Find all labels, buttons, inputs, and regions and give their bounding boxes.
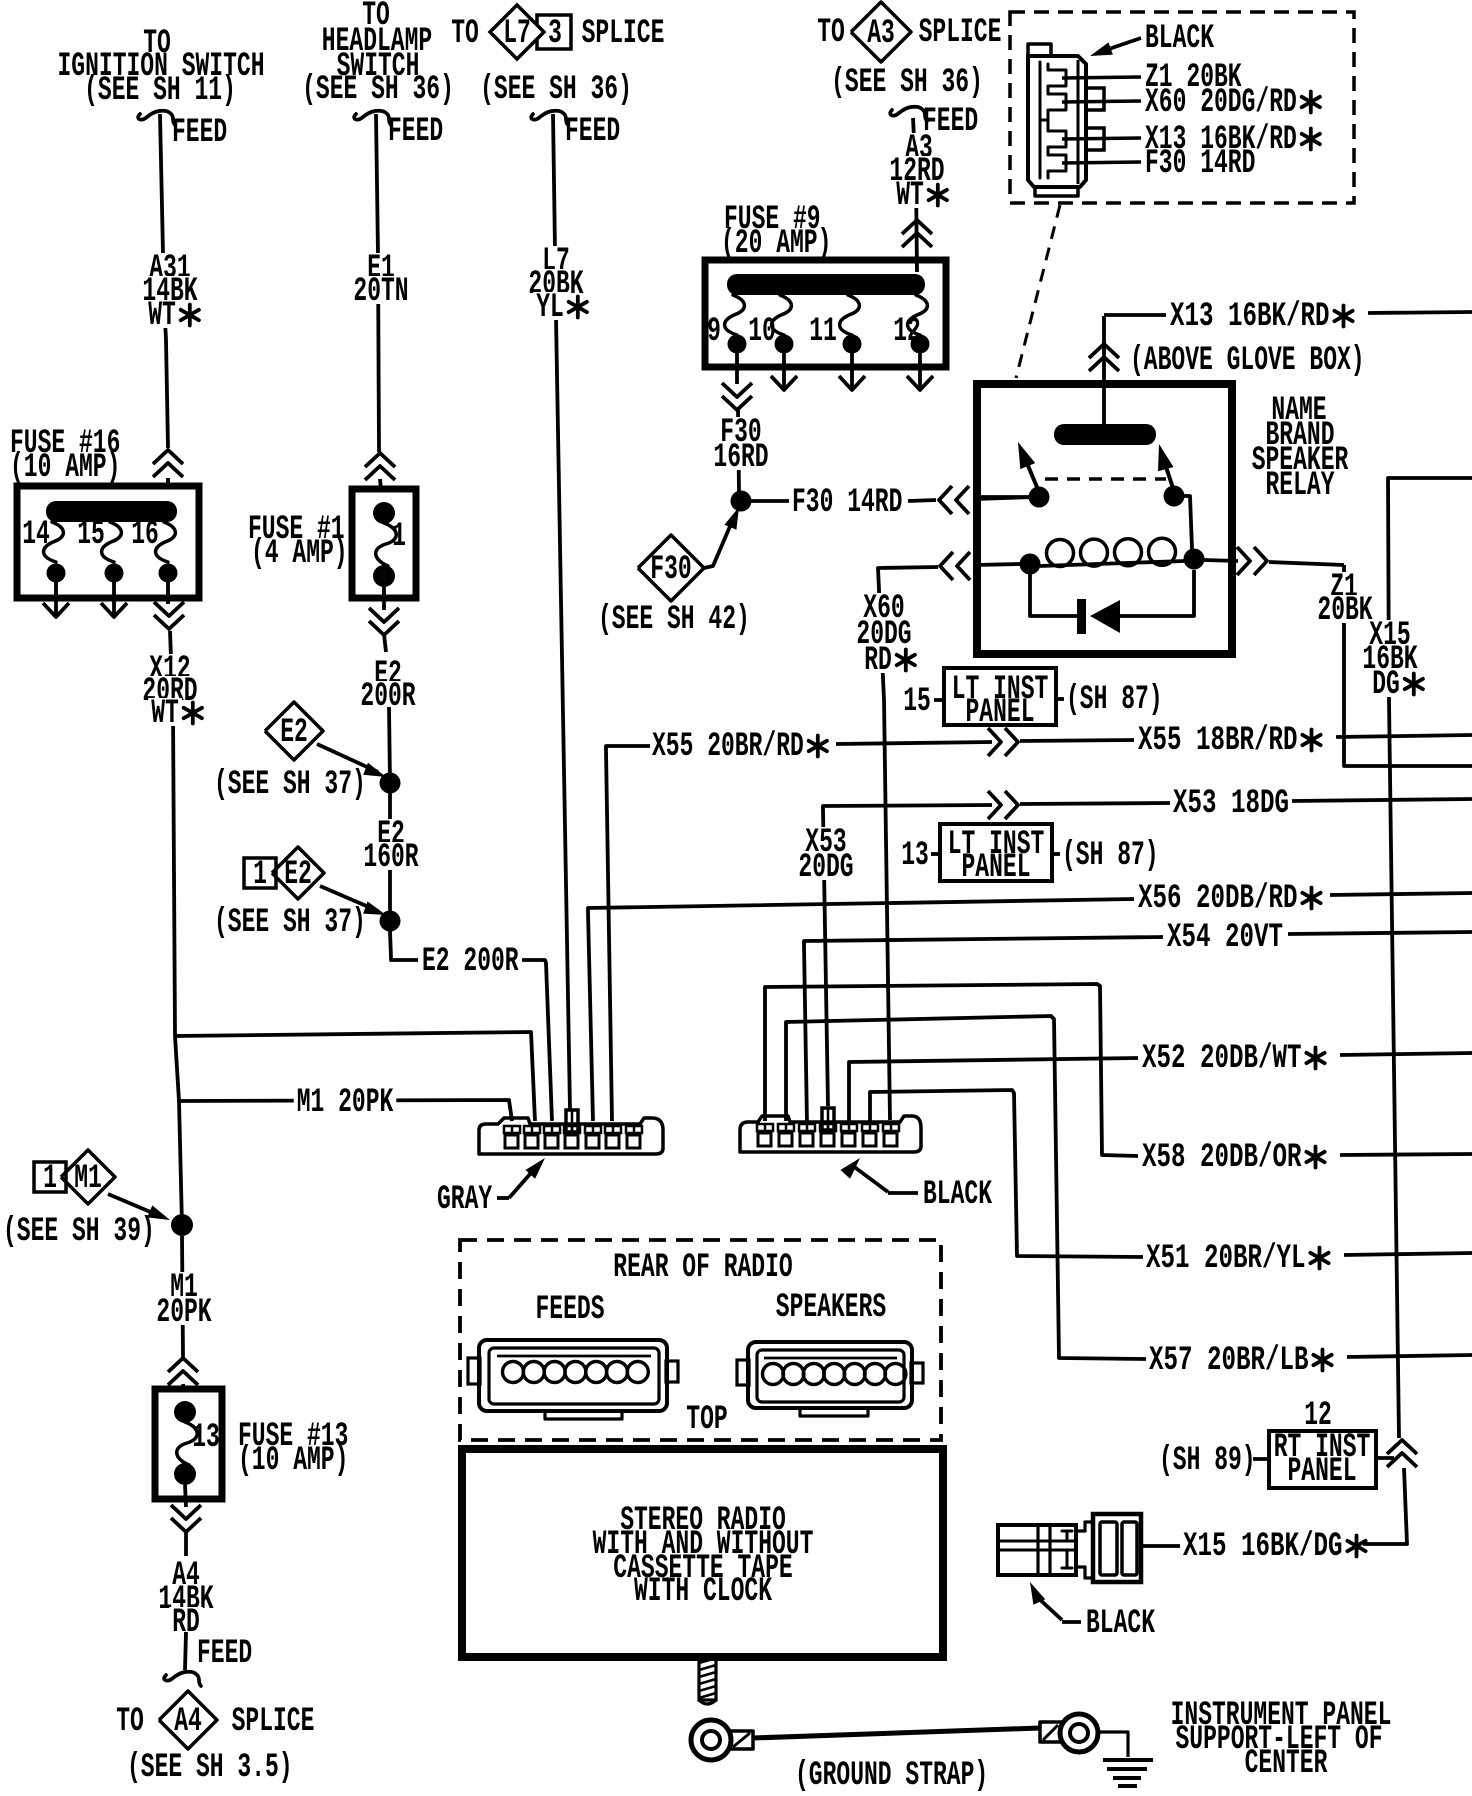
svg-text:X13 16BK/RD: X13 16BK/RD: [1170, 298, 1330, 336]
svg-text:X56 20DB/RD: X56 20DB/RD: [1138, 880, 1298, 918]
svg-text:E2: E2: [284, 856, 312, 894]
wire X15 16BK/DG* label: [1141, 1544, 1180, 1548]
label A4 14BK RD: [169, 1560, 203, 1588]
gray pin 2: [525, 1135, 538, 1148]
svg-text:X54 20VT: X54 20VT: [1167, 919, 1283, 957]
svg-text:TO: TO: [817, 14, 845, 52]
svg-text:X58 20DB/OR: X58 20DB/OR: [1142, 1139, 1302, 1177]
junction dot F30: [731, 491, 752, 512]
connector GRAY body: [479, 1118, 663, 1154]
svg-text:(SEE SH 36): (SEE SH 36): [480, 71, 632, 109]
svg-text:SPLICE: SPLICE: [582, 15, 665, 53]
black pin 2: [779, 1133, 792, 1146]
wire E1 20TN: [376, 114, 379, 452]
label BLACK with arrow (X15 connector): [1030, 1582, 1045, 1605]
svg-text:20BK: 20BK: [1317, 592, 1373, 630]
wire X13 16BK/RD* row: [1104, 313, 1166, 317]
svg-text:DG: DG: [1372, 666, 1400, 704]
wire M1 20PK branch to gray pin1: [179, 1100, 512, 1121]
svg-text:10: 10: [748, 313, 776, 351]
svg-text:FEEDS: FEEDS: [536, 1291, 605, 1329]
gray pin 1: [505, 1135, 518, 1148]
relay diode: [1030, 574, 1077, 616]
connector C2 face with two cavities: [1093, 1514, 1141, 1582]
svg-text:11: 11: [809, 313, 837, 351]
svg-text:PANEL: PANEL: [966, 694, 1035, 732]
svg-text:(SEE SH 42): (SEE SH 42): [598, 601, 750, 639]
splice symbol 1-M1: [34, 1162, 66, 1192]
svg-text:13: 13: [901, 837, 929, 875]
box STEREO RADIO: [462, 1449, 943, 1657]
arrow from M1 splice to junction: [108, 1194, 160, 1216]
svg-text:SPLICE: SPLICE: [919, 14, 1002, 52]
relay contact wire (left): [975, 495, 1029, 499]
svg-text:E2: E2: [280, 714, 308, 752]
gray index terminal: [566, 1110, 578, 1132]
svg-text:(SH 87): (SH 87): [1066, 681, 1163, 719]
black pin 1: [758, 1133, 771, 1146]
svg-text:PANEL: PANEL: [1288, 1453, 1357, 1491]
svg-text:A3: A3: [867, 15, 895, 53]
svg-text:20TN: 20TN: [353, 273, 408, 311]
break symbol above fuse 1: [365, 453, 395, 467]
svg-text:3: 3: [548, 15, 562, 53]
wire X12 branch to gray pin2: [175, 1032, 535, 1121]
fuse box F16: [17, 486, 199, 598]
gray pin 5: [586, 1135, 599, 1148]
fuse box F13: [155, 1389, 222, 1499]
connector C1 lock tabs: [1086, 88, 1104, 110]
svg-text:FEED: FEED: [172, 114, 227, 152]
svg-text:(4 AMP): (4 AMP): [251, 535, 348, 573]
svg-text:(GROUND STRAP): (GROUND STRAP): [795, 1757, 988, 1795]
label X12 20RD WT*: [146, 654, 193, 682]
svg-text:F30 14RD: F30 14RD: [792, 484, 902, 522]
svg-text:CENTER: CENTER: [1245, 1745, 1328, 1783]
svg-text:FEED: FEED: [565, 113, 620, 151]
svg-text:(SEE SH 37): (SEE SH 37): [214, 766, 366, 804]
black pin 7: [884, 1133, 897, 1146]
svg-text:FEED: FEED: [197, 1635, 252, 1673]
svg-text:BLACK: BLACK: [1086, 1605, 1155, 1643]
ground strap left ring terminal: [691, 1720, 731, 1760]
svg-text:1: 1: [253, 856, 267, 894]
break symbol on A31 wire: [153, 450, 183, 464]
label M1 20PK on wire: [294, 1087, 397, 1115]
relay left contact arm with arrow: [1024, 456, 1039, 492]
terminal line X60 20DG/RD*: [1062, 101, 1141, 102]
wire E2 200R to gray pin3: [390, 931, 418, 960]
svg-text:(SEE SH 11): (SEE SH 11): [84, 72, 236, 110]
svg-text:WT: WT: [148, 297, 176, 335]
wire X52 20DB/WT* row from black pin5: [849, 1058, 1138, 1121]
wire F30 14RD to relay: [751, 499, 789, 503]
wire X60 from relay to black pin7: [878, 567, 938, 1120]
svg-text:9: 9: [707, 313, 721, 351]
svg-text:160R: 160R: [363, 839, 419, 877]
connector C2 body (X15): [998, 1525, 1076, 1575]
svg-text:RD: RD: [864, 642, 892, 680]
svg-text:(SEE SH 36): (SEE SH 36): [302, 71, 454, 109]
fuse box F9: [705, 260, 946, 367]
break symbol above fuse 13: [168, 1358, 198, 1372]
ground symbol: [1097, 1732, 1128, 1757]
wire X12 20RD WT* long vertical to M1 junction: [170, 631, 182, 1225]
connector C1 right wall: [1077, 60, 1080, 184]
junction dot M1: [171, 1214, 193, 1236]
wire X51 20BR/YL* from black pin6: [870, 1090, 1143, 1257]
gray pin 4: [565, 1135, 578, 1148]
svg-text:(SEE SH 39): (SEE SH 39): [3, 1213, 155, 1251]
dashed leader from detail box to relay: [1016, 205, 1060, 378]
fuse box F1: [352, 489, 416, 598]
wire X15 below break to connector label: [1363, 1468, 1407, 1544]
fuse12 output: [918, 353, 922, 387]
svg-text:WT: WT: [896, 177, 924, 215]
black pin 6: [863, 1133, 876, 1146]
wire A3 12RD WT*: [913, 118, 917, 272]
svg-text:X60 20DG/RD: X60 20DG/RD: [1145, 84, 1297, 122]
wire X57 20BR/LB* from black pin2: [786, 1016, 1146, 1359]
mounting stud below radio: [699, 1655, 716, 1700]
svg-text:RELAY: RELAY: [1266, 467, 1335, 505]
break symbol above fuse 9: [902, 220, 932, 234]
fuse 1 element: [373, 502, 395, 524]
fuse11 output: [850, 353, 854, 387]
arrow from 1-E2 to junction: [320, 886, 378, 911]
svg-text:16RD: 16RD: [713, 439, 768, 477]
relay coil left wire + chevrons: [975, 564, 1020, 565]
svg-text:M1: M1: [74, 1160, 102, 1198]
svg-text:(SEE SH 36): (SEE SH 36): [831, 64, 983, 102]
wire L7 20BK YL*: [553, 114, 570, 1110]
break symbol below fuse 13: [171, 1505, 201, 1519]
wire X53 row from black pin4: [823, 805, 992, 1106]
terminal line X13 16BK/RD*: [1062, 138, 1141, 139]
feed symbol (A4): [164, 1672, 201, 1686]
feed symbol (L7): [531, 111, 568, 125]
relay right contact arm with arrow: [1163, 458, 1174, 491]
feed symbol (A3): [890, 107, 927, 121]
svg-text:A4: A4: [174, 1703, 202, 1741]
black pin 5: [842, 1133, 855, 1146]
wire X54 20VT row from black pin3: [804, 937, 1163, 1124]
svg-text:BLACK: BLACK: [1145, 20, 1214, 58]
svg-text:X55 20BR/RD: X55 20BR/RD: [652, 728, 804, 766]
svg-text:TO: TO: [451, 15, 479, 53]
relay right contact dot: [1164, 486, 1185, 507]
svg-text:GRAY: GRAY: [437, 1181, 493, 1219]
bus bar in F16: [46, 501, 177, 522]
svg-text:X15 16BK/DG: X15 16BK/DG: [1183, 1528, 1343, 1566]
gray pin 3: [545, 1135, 558, 1148]
splice symbol F30 diamond: [638, 535, 704, 601]
dashed detail box: [1010, 12, 1354, 203]
svg-text:(10 AMP): (10 AMP): [10, 449, 120, 487]
connector BLACK body: [740, 1116, 921, 1152]
svg-text:REAR OF RADIO: REAR OF RADIO: [613, 1249, 792, 1287]
svg-text:L7: L7: [503, 15, 531, 53]
relay box NAME BRAND SPEAKER RELAY: [977, 384, 1232, 654]
wire X55 20BR/RD* row from gray pin6: [606, 746, 650, 1121]
svg-text:X55 18BR/RD: X55 18BR/RD: [1138, 722, 1298, 760]
dashed box REAR OF RADIO: [460, 1240, 941, 1440]
fuse9 output wire F30 16RD: [735, 353, 739, 384]
relay right contact to coil: [1174, 496, 1192, 549]
splice symbol 1-E2: [244, 858, 276, 888]
svg-text:FEED: FEED: [388, 113, 443, 151]
wire E2 to junction: [389, 707, 390, 783]
fuse 13 element: [174, 1401, 196, 1423]
break symbol on X15 near RT INST PANEL: [1387, 1440, 1417, 1454]
gray pin 7: [627, 1135, 640, 1148]
fuse10 output: [782, 353, 786, 387]
terminal line Z1 20BK: [1062, 77, 1141, 78]
relay dashed link between arms: [1045, 477, 1166, 481]
gray pin 6: [606, 1135, 619, 1148]
connector C1 housing side view: [1028, 56, 1086, 187]
svg-text:E2 200R: E2 200R: [422, 943, 519, 981]
svg-text:PANEL: PANEL: [962, 849, 1031, 887]
junction dot E2-1: [380, 773, 401, 794]
fuse 14 output wire+arrow: [54, 582, 58, 614]
svg-text:(ABOVE GLOVE BOX): (ABOVE GLOVE BOX): [1130, 342, 1365, 380]
connector FEEDS 7-way: [479, 1340, 667, 1411]
wire E2 160R: [388, 793, 392, 921]
svg-text:WT: WT: [151, 695, 179, 733]
relay coil: [1020, 554, 1041, 575]
label E2 200R: [371, 659, 405, 687]
inline connector >> on X53 row: [1005, 791, 1018, 819]
connector SPEAKERS 7-way: [748, 1342, 912, 1408]
svg-text:X52 20DB/WT: X52 20DB/WT: [1142, 1040, 1302, 1078]
svg-text:(SEE SH 37): (SEE SH 37): [214, 904, 366, 942]
black pin 3: [800, 1133, 813, 1146]
wire X15 16BK DG* from right edge: [1388, 478, 1472, 1438]
break symbol below fuse1: [369, 608, 399, 622]
wire M1 20PK down to fuse 13: [182, 1236, 183, 1357]
wire below fuse 13: [185, 1485, 186, 1507]
wire below fuse1: [382, 587, 386, 610]
svg-text:1: 1: [43, 1160, 57, 1198]
svg-text:(10 AMP): (10 AMP): [238, 1442, 348, 1480]
svg-text:(SEE SH 3.5): (SEE SH 3.5): [127, 1749, 293, 1787]
break symbol above glove box: [1089, 344, 1119, 358]
connector box RT INST PANEL: [1269, 1431, 1376, 1488]
inline connector >> on X55 row: [1005, 728, 1018, 756]
connector C1 castellated terminals: [1040, 64, 1066, 120]
black pin 4: [821, 1133, 834, 1146]
svg-text:TO: TO: [116, 1703, 144, 1741]
splice symbol E2: [265, 702, 323, 760]
terminal line F30 14RD: [1062, 162, 1141, 163]
relay left contact dot: [1029, 487, 1050, 508]
svg-text:(SH 87): (SH 87): [1062, 837, 1159, 875]
svg-text:BLACK: BLACK: [923, 1176, 992, 1214]
feed symbol (headlamp): [354, 111, 391, 125]
label A31 14BK WT*: [146, 253, 193, 281]
ground strap braid: [753, 1728, 1040, 1738]
wire X56 20DB/RD* row from gray pin5: [588, 899, 1134, 1121]
svg-text:F30 14RD: F30 14RD: [1145, 145, 1255, 183]
label BLACK with arrow (8-way): [840, 1158, 860, 1179]
ground strap right ring terminal: [1040, 1722, 1062, 1742]
svg-text:X53 18DG: X53 18DG: [1173, 785, 1289, 823]
relay coil right wire + chevrons to Z1: [1204, 560, 1238, 561]
svg-text:TOP: TOP: [686, 1401, 727, 1439]
black index terminal: [822, 1108, 834, 1130]
wire A31 14BK WT* vertical: [160, 114, 168, 448]
svg-text:M1 20PK: M1 20PK: [297, 1084, 394, 1122]
wire to A4 feed: [185, 1632, 186, 1670]
break symbol below F16: [154, 602, 184, 616]
fuse 15 output wire+arrow: [112, 582, 116, 614]
svg-text:20DG: 20DG: [798, 849, 853, 887]
svg-text:20PK: 20PK: [156, 1294, 212, 1332]
wire X13 vertical into relay: [1102, 316, 1106, 430]
wire Z1 20BK vertical and elbow to right edge: [1344, 565, 1472, 766]
svg-text:WITH CLOCK: WITH CLOCK: [634, 1573, 772, 1611]
junction dot E2-2: [380, 911, 401, 932]
feed symbol (ignition): [138, 111, 175, 125]
svg-text:YL: YL: [536, 289, 564, 327]
svg-text:X57 20BR/LB: X57 20BR/LB: [1149, 1342, 1309, 1380]
svg-text:SPEAKERS: SPEAKERS: [776, 1289, 886, 1327]
svg-text:X51 20BR/YL: X51 20BR/YL: [1146, 1240, 1306, 1278]
wire X58 20DB/OR* from black pin1: [765, 984, 1138, 1156]
svg-text:F30: F30: [650, 551, 691, 589]
svg-text:(SH 89): (SH 89): [1159, 1442, 1256, 1480]
fuse 16 output wire: [166, 582, 170, 604]
svg-text:SPLICE: SPLICE: [232, 1703, 315, 1741]
bus bar in F9: [727, 274, 925, 295]
svg-text:15: 15: [903, 683, 931, 721]
relay common bar: [1054, 424, 1156, 445]
connector chevrons << on F30 wire: [939, 486, 952, 514]
